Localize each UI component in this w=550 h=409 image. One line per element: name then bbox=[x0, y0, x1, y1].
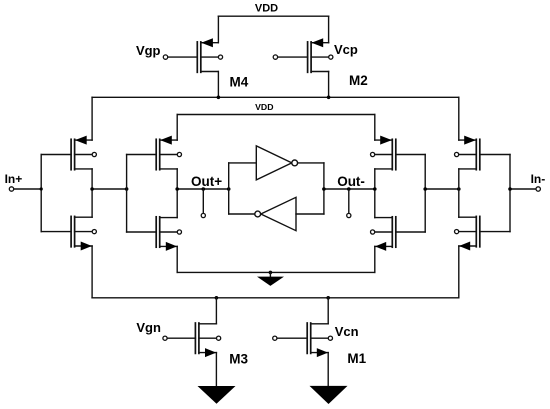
wire outer-left gate vertical bbox=[40, 155, 42, 232]
wire inner-left PMOS gate bbox=[127, 154, 157, 156]
junction outer-left output bbox=[90, 187, 94, 191]
wire outer-left PMOS gate bbox=[41, 154, 71, 156]
wire outer-left NMOS gate bbox=[41, 231, 71, 233]
wire M2 gate bbox=[278, 56, 308, 58]
wire outer bottom rail bbox=[92, 297, 459, 299]
wire M3 source down bbox=[215, 353, 217, 386]
transistor outer-right NMOS bbox=[455, 216, 480, 250]
junction In- on gate vertical bbox=[508, 187, 512, 191]
wire inner-right NMOS source down bbox=[374, 246, 376, 272]
junction Out- stub bbox=[347, 187, 351, 191]
wire inner-right gate to outer-right output bbox=[425, 188, 459, 190]
wire inner-right NMOS gate bbox=[396, 231, 425, 233]
wire M2 source up to VDD bbox=[328, 16, 330, 43]
svg-text:Vgn: Vgn bbox=[136, 320, 161, 335]
wire bottom inverter input bbox=[296, 213, 324, 215]
transistor inner-right NMOS bbox=[371, 217, 396, 251]
junction In+ on gate vertical bbox=[40, 187, 43, 190]
junction M4 drain on rail bbox=[217, 96, 221, 100]
transistor M2 bbox=[308, 38, 333, 72]
wire outer-right NMOS source down bbox=[458, 246, 460, 298]
transistor outer-right PMOS bbox=[455, 136, 480, 170]
terminal Out+ stub circle bbox=[201, 213, 205, 217]
wire inverter loop left vertical bbox=[228, 163, 230, 214]
junction inner-right gate bbox=[423, 187, 427, 191]
wire outer-right PMOS source up bbox=[458, 97, 460, 140]
wire outer-right gate vertical bbox=[509, 155, 511, 232]
junction inner ground bbox=[269, 271, 273, 275]
wire M1 gate bbox=[277, 337, 307, 339]
svg-text:In-: In- bbox=[531, 172, 546, 186]
junction M1 drain on rail bbox=[326, 296, 330, 300]
wire M4 drain down bbox=[217, 72, 219, 98]
svg-text:Vgp: Vgp bbox=[136, 43, 161, 58]
wire In+ lead bbox=[14, 188, 42, 190]
svg-text:M1: M1 bbox=[347, 351, 366, 366]
wire inverter loop right vertical bbox=[323, 163, 325, 214]
wire outer top rail bbox=[92, 96, 459, 98]
inverter U1 output bubble bbox=[292, 160, 298, 166]
terminal Vcp circle bbox=[273, 55, 277, 59]
wire inner-left PMOS drain down bbox=[176, 169, 178, 189]
junction Out+ stub bbox=[202, 187, 206, 191]
wire M3 drain up bbox=[215, 298, 217, 324]
svg-text:VDD: VDD bbox=[255, 3, 278, 15]
wire M2 drain down bbox=[328, 72, 330, 98]
wire outer-right NMOS gate bbox=[480, 231, 510, 233]
inverter U1 (top, points right) bbox=[256, 146, 292, 180]
wire outer-right PMOS gate bbox=[480, 154, 510, 156]
transistor outer-left NMOS bbox=[71, 216, 96, 250]
wire Out+ stub bbox=[202, 189, 204, 213]
transistor inner-left NMOS bbox=[156, 217, 181, 251]
inverter U2 output bubble bbox=[255, 211, 261, 217]
transistor outer-left PMOS bbox=[71, 136, 96, 170]
wire inner-right PMOS source up bbox=[374, 115, 376, 141]
wire outer-left PMOS drain down bbox=[91, 169, 93, 189]
transistor M4 bbox=[197, 38, 222, 72]
wire top inverter output bbox=[298, 162, 324, 164]
transistor M3 bbox=[195, 323, 220, 357]
wire Out- stub bbox=[348, 189, 350, 213]
junction Out+ inverter vertical bbox=[227, 187, 231, 191]
wire inner ground stub bbox=[269, 272, 271, 276]
svg-text:Out-: Out- bbox=[337, 174, 365, 189]
inverter U2 (bottom, points left) bbox=[261, 197, 296, 230]
wire Out+ net bbox=[177, 188, 229, 190]
wire inner-left PMOS source up bbox=[176, 115, 178, 141]
svg-text:In+: In+ bbox=[5, 172, 23, 186]
junction M3 drain on rail bbox=[215, 296, 219, 300]
transistor inner-right PMOS bbox=[371, 136, 396, 170]
wire VDD top rail bbox=[218, 15, 328, 17]
wire bottom inverter output bbox=[229, 213, 255, 215]
wire inner-left gate vertical bbox=[126, 155, 128, 233]
terminal In- circle bbox=[536, 187, 540, 191]
wire inner ground rail bbox=[177, 271, 375, 273]
wire outer-left NMOS drain up bbox=[91, 189, 93, 217]
wire M4 gate bbox=[168, 56, 198, 58]
ground inner (solid triangle) bbox=[257, 277, 284, 286]
junction Out- inverter vertical bbox=[322, 187, 326, 191]
junction inner-right output bbox=[373, 187, 377, 191]
terminal Vgp circle bbox=[163, 55, 167, 59]
svg-text:Vcp: Vcp bbox=[334, 42, 358, 57]
transistor M1 bbox=[307, 323, 332, 357]
junction outer-right output bbox=[457, 187, 461, 191]
terminal In+ circle bbox=[9, 187, 13, 191]
junction inner-left output bbox=[175, 187, 179, 191]
junction M2 drain on rail bbox=[327, 96, 331, 100]
wire outer-right PMOS drain down bbox=[458, 169, 460, 189]
svg-text:Vcn: Vcn bbox=[335, 324, 359, 339]
wire inner-left NMOS drain up bbox=[176, 189, 178, 218]
wire inner-left NMOS gate bbox=[127, 231, 157, 233]
svg-text:M2: M2 bbox=[349, 73, 368, 88]
wire outer-left PMOS source up bbox=[91, 97, 93, 140]
ground M1 (solid triangle) bbox=[310, 386, 348, 404]
svg-text:M3: M3 bbox=[229, 352, 248, 367]
wire inner-left NMOS source down bbox=[176, 246, 178, 272]
wire inner-right NMOS drain up bbox=[374, 189, 376, 218]
wire M1 drain up bbox=[327, 298, 329, 324]
terminal Vcn circle bbox=[273, 336, 277, 340]
svg-text:VDD: VDD bbox=[255, 102, 273, 112]
wire Out- net bbox=[324, 188, 375, 190]
terminal Out- stub circle bbox=[347, 213, 351, 217]
wire outer-left NMOS source down bbox=[91, 246, 93, 298]
wire top inverter input bbox=[229, 162, 257, 164]
wire inner-right gate vertical bbox=[424, 155, 426, 233]
wire In- lead bbox=[510, 188, 536, 190]
wire inner-right PMOS gate bbox=[396, 154, 425, 156]
wire M1 source down bbox=[327, 353, 329, 386]
transistor inner-left PMOS bbox=[156, 136, 181, 170]
wire outer-left output to inner-left gate bbox=[92, 188, 127, 190]
junction inner-left gate bbox=[125, 187, 129, 191]
wire inner VDD rail bbox=[177, 114, 375, 116]
wire M4 source up to VDD bbox=[217, 16, 219, 43]
svg-text:Out+: Out+ bbox=[191, 174, 222, 189]
wire inner-right PMOS drain down bbox=[374, 169, 376, 189]
ground M3 (solid triangle) bbox=[198, 386, 236, 404]
svg-text:M4: M4 bbox=[230, 74, 249, 89]
wire M3 gate bbox=[167, 337, 195, 339]
wire outer-right NMOS drain up bbox=[458, 189, 460, 217]
terminal Vgn circle bbox=[163, 336, 167, 340]
